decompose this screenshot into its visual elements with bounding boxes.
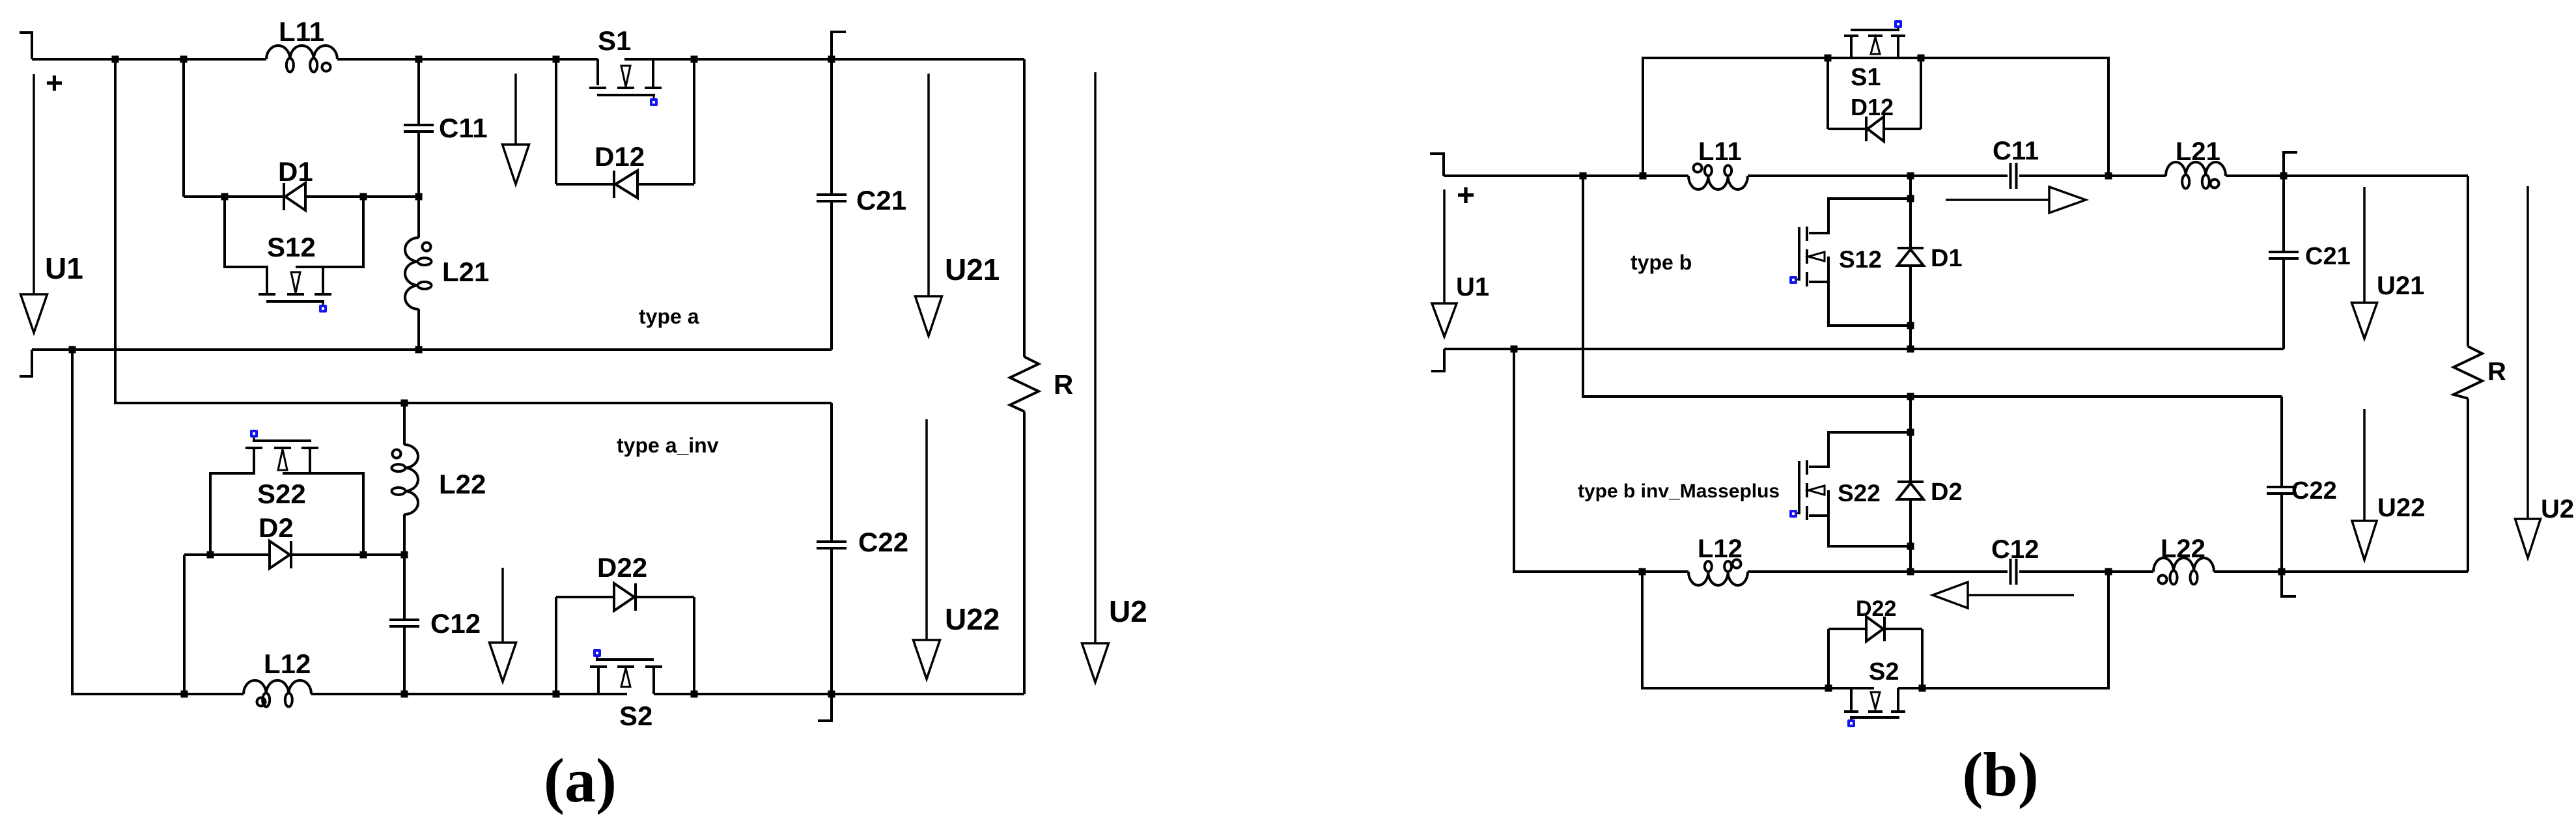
node D2 line / S22 right (a) (360, 551, 367, 559)
svg-text:type a: type a (639, 305, 699, 328)
svg-text:R: R (1054, 369, 1073, 400)
svg-text:L12: L12 (264, 648, 311, 679)
inductor L22 (a) (392, 445, 419, 514)
label C22 (b) (2291, 477, 2337, 505)
arrow current i2 (a) (490, 568, 516, 682)
transistor S1 (a) (589, 59, 662, 106)
svg-text:(a): (a) (544, 745, 617, 815)
wire R top lead (a) (1023, 59, 1026, 357)
wire C22 bottom lead (b) (2282, 494, 2296, 596)
node rail1 / S1 return riser (b) (2105, 173, 2112, 180)
node rail3 / D2 branch (b) (1907, 393, 1914, 400)
wire C21 measuring bracket (b) (2284, 152, 2297, 176)
label C21 (b) (2305, 243, 2351, 270)
node D2 / S22 top (b) (1907, 429, 1914, 436)
svg-text:U21: U21 (2377, 271, 2424, 300)
wire input rail segment 4 (b) (2226, 174, 2468, 177)
label S22 (b) (1838, 480, 1881, 507)
svg-text:L21: L21 (442, 257, 489, 287)
wire D22 right riser (b) (1921, 629, 1924, 688)
node D2 line / L22 bottom (a) (401, 551, 408, 559)
label D1 (b) (1931, 245, 1963, 272)
svg-text:+: + (46, 66, 63, 100)
diode D2 (b) (1897, 482, 1924, 499)
label D12 (a) (595, 141, 645, 172)
arrow U1 source voltage (b) (1432, 189, 1457, 337)
label D2 (b) (1931, 479, 1963, 506)
capacitor C21 (a) (817, 195, 847, 201)
svg-text:L11: L11 (279, 16, 324, 47)
wire S2 drain corner (a) (652, 668, 655, 694)
svg-text:S12: S12 (1839, 246, 1882, 273)
label D2 (a) (259, 512, 294, 543)
inductor L21 (a) (405, 238, 432, 309)
wire C12 bottom lead (a) (403, 626, 406, 694)
wire D22 cathode segment (a) (636, 596, 694, 598)
wire C22 bottom lead (a) (818, 548, 832, 721)
node bottom rail / D2 column (a) (181, 691, 188, 698)
node S2 rail / D22 right (b) (1919, 685, 1926, 692)
wire L21 bottom lead (a) (417, 309, 420, 350)
diode D22 (b) (1866, 617, 1884, 641)
wire D22 cathode segment (b) (1884, 628, 1922, 630)
wire C21 measuring bracket (a) (832, 32, 846, 59)
label + polarity (a) (46, 66, 63, 100)
wire D2 left column down (a) (183, 555, 186, 694)
label D1 (a) (278, 156, 313, 187)
label S2 (b) (1869, 658, 1899, 686)
diode D12 (a) (614, 171, 637, 198)
node bottom rail / C12 (a) (401, 691, 408, 698)
node rail1 / S1 riser (b) (1640, 173, 1647, 180)
node mid rail / D1 (b) (1907, 346, 1914, 353)
wire top rail right of S1 (a) (624, 58, 1024, 61)
wire S22 bottom lead (b) (1809, 516, 1911, 546)
label C12 (b) (1991, 535, 2039, 564)
svg-text:D12: D12 (1851, 94, 1894, 120)
svg-text:R: R (2487, 357, 2506, 386)
resistor R (b) (2454, 346, 2482, 398)
wire L22 top lead (a) (403, 403, 406, 445)
capacitor C22 (b) (2267, 487, 2297, 494)
svg-text:type a_inv: type a_inv (617, 434, 719, 457)
svg-text:C12: C12 (1991, 535, 2039, 564)
wire S22 right lead (a) (283, 473, 363, 555)
inductor L11 (a) (266, 46, 337, 72)
capacitor C22 (a) (817, 542, 847, 548)
svg-text:L22: L22 (2161, 535, 2205, 563)
wire C22 top lead (a) (830, 403, 833, 542)
node rail1 / C21 branch (b) (2280, 173, 2288, 180)
wire left column (a) (72, 350, 244, 694)
label U1 (a) (45, 251, 83, 285)
arrow U22 output voltage (a) (914, 419, 940, 679)
wire L21 top lead (a) (417, 197, 420, 238)
svg-text:C12: C12 (430, 608, 481, 639)
svg-text:C22: C22 (858, 527, 908, 557)
svg-text:D2: D2 (1931, 479, 1963, 506)
arrow U21 output voltage (a) (916, 74, 942, 336)
node mid rail / L21 bottom (a) (415, 346, 423, 354)
node mid rail / left column (a) (69, 346, 76, 354)
transistor S22 (b) (1789, 460, 1828, 546)
node D1 line / C11-L21 (a) (415, 193, 423, 201)
svg-text:S2: S2 (1869, 658, 1899, 686)
wire S1 line (b) (1828, 57, 1921, 59)
node S2 rail / D22 left (b) (1825, 685, 1832, 692)
label U22 (a) (945, 602, 1000, 636)
inductor L12 (a) (244, 680, 311, 707)
svg-text:D2: D2 (259, 512, 294, 543)
wire D1 branch top (b) (1909, 176, 1912, 248)
svg-text:U1: U1 (45, 251, 83, 285)
svg-text:U2: U2 (1109, 594, 1147, 628)
svg-text:type b: type b (1631, 251, 1692, 274)
arrow U2 total output voltage (a) (1082, 72, 1109, 682)
node rail1 / rail3 riser (b) (1580, 173, 1587, 180)
svg-text:S1: S1 (1851, 64, 1881, 91)
wire mid rail to L12 rail riser (b) (1514, 349, 1688, 572)
wire top rail mid segment (a) (337, 58, 598, 61)
wire D22 anode segment (a) (556, 596, 614, 598)
label L12 (a) (264, 648, 311, 679)
svg-text:D1: D1 (278, 156, 313, 187)
node L12 rail / S2 right riser (b) (2105, 568, 2112, 576)
node top rail / D1 loop riser (a) (180, 56, 188, 63)
node rail1 / D1 branch (b) (1907, 173, 1914, 180)
wire D1 line left (a) (184, 195, 285, 198)
wire left column U1-riser to inv rail (a) (115, 59, 832, 403)
svg-text:C22: C22 (2291, 477, 2337, 505)
wire S12 bottom lead (b) (1809, 282, 1911, 326)
label type b inv_Masseplus (1578, 480, 1780, 502)
label C11 (a) (439, 113, 488, 143)
node D1 line / S12 right (a) (360, 193, 367, 201)
label S1 (a) (598, 25, 631, 56)
wire D12 right riser (b) (1920, 58, 1922, 129)
label C12 (a) (430, 608, 481, 639)
transistor S12 (b) (1789, 227, 1828, 326)
transistor S22 (a) (245, 430, 318, 473)
capacitor C11 (a) (404, 125, 434, 132)
wire D1 branch bottom (b) (1909, 266, 1912, 349)
svg-text:(b): (b) (1962, 740, 2038, 809)
capacitor C11 (b) (2011, 163, 2017, 189)
svg-text:L22: L22 (439, 469, 486, 499)
label U22 (b) (2377, 494, 2425, 522)
svg-text:C21: C21 (856, 185, 906, 216)
wire R bottom lead (b) (2467, 398, 2469, 572)
node top rail / C21 branch (a) (828, 56, 835, 63)
wire D12 left riser (b) (1827, 58, 1829, 129)
wire D2 branch bottom (b) (1909, 499, 1912, 572)
wire C11 bottom lead (a) (417, 132, 420, 197)
svg-text:C11: C11 (1993, 137, 2039, 165)
wire input rail segment 3 (b) (2019, 174, 2166, 177)
wire C21 bottom lead (a) (830, 201, 833, 350)
label type b (1631, 251, 1692, 274)
resistor R (a) (1010, 357, 1039, 411)
label R (b) (2487, 357, 2506, 386)
diode D1 (b) (1897, 248, 1924, 266)
label R (a) (1054, 369, 1073, 400)
node D1 / S12 top (b) (1907, 195, 1914, 202)
svg-text:U1: U1 (1456, 273, 1489, 301)
label S12 (a) (267, 232, 316, 262)
wire S1 drain corner (a) (596, 59, 599, 85)
wire source bracket bottom-left (a) (20, 350, 32, 376)
label D22 (a) (597, 552, 647, 583)
svg-text:L21: L21 (2176, 137, 2220, 166)
diode D12 (b) (1866, 117, 1884, 141)
node inv rail / L22 (a) (401, 400, 408, 407)
wire S2 rail mid (b) (1828, 687, 1874, 689)
svg-text:C11: C11 (439, 113, 488, 143)
svg-text:D12: D12 (595, 141, 645, 172)
label C21 (a) (856, 185, 906, 216)
inductor L21 (b) (2166, 162, 2226, 189)
wire C11 top lead (a) (417, 59, 420, 125)
wire S1 right return (b) (1921, 58, 2108, 176)
node top rail / D12 left riser (a) (553, 56, 560, 63)
wire S12 right lead (a) (296, 197, 363, 267)
wire S1 left riser (b) (1643, 58, 1828, 176)
node D1 / S12 bottom (b) (1907, 322, 1914, 329)
wire D12 left riser (a) (555, 59, 557, 184)
wire S12 top lead (b) (1809, 199, 1911, 233)
svg-text:type b inv_Masseplus: type b inv_Masseplus (1578, 480, 1780, 502)
caption (a) (544, 745, 617, 815)
wire C22 top lead (b) (2280, 397, 2283, 487)
wire D12 anode segment (b) (1828, 128, 1867, 130)
wire L12 rail segment 4 (b) (2214, 570, 2468, 573)
wire L12 rail segment 3 (b) (2019, 570, 2153, 573)
wire C12 top lead (a) (403, 555, 406, 620)
arrow U1 source voltage (a) (21, 74, 48, 333)
wire S2 rail left column (b) (1642, 572, 1828, 688)
wire rail1 to rail3 riser (b) (1583, 176, 2282, 397)
wire source bracket bottom-left (b) (1431, 349, 1444, 371)
label S2 (a) (619, 701, 652, 731)
wire D22 right riser (a) (693, 597, 695, 694)
wire S22 left lead (a) (210, 449, 254, 555)
svg-text:S12: S12 (267, 232, 316, 262)
wire D2 branch top (b) (1909, 397, 1912, 482)
label + polarity (b) (1457, 178, 1475, 213)
label S1 (b) (1851, 64, 1881, 91)
wire input rail segment 2 (b) (1748, 174, 2008, 177)
capacitor C12 (b) (2011, 559, 2017, 585)
label U2 (b) (2541, 495, 2574, 523)
label L21 (b) (2176, 137, 2220, 166)
label U1 (b) (1456, 273, 1489, 301)
node S1 left / D12 (b) (1825, 55, 1832, 62)
wire D2 line right (a) (291, 553, 404, 556)
capacitor C21 (b) (2269, 252, 2299, 258)
wire S12 left lead (a) (225, 197, 267, 293)
svg-text:D22: D22 (1856, 596, 1896, 621)
node mid rail / L12 column (b) (1511, 346, 1518, 353)
node bottom rail / D22 right (a) (691, 691, 698, 698)
wire R top lead (b) (2467, 176, 2469, 346)
wire bottom rail mid (a) (311, 693, 627, 695)
inductor L12 (b) (1688, 560, 1748, 586)
wire S2 drain corner (b) (1897, 688, 1899, 710)
wire R bottom lead (a) (1023, 411, 1026, 694)
svg-text:+: + (1457, 178, 1475, 213)
svg-text:U2: U2 (2541, 495, 2574, 523)
inductor L11 (b) (1688, 164, 1748, 190)
wire D12 cathode segment (a) (637, 183, 694, 186)
transistor S12 (a) (259, 267, 331, 313)
svg-text:L12: L12 (1698, 535, 1743, 563)
arrow U2 total output voltage (b) (2515, 186, 2541, 558)
inductor L22 (b) (2153, 558, 2214, 585)
svg-text:S22: S22 (257, 479, 306, 509)
node L12 rail / D2 (b) (1907, 568, 1914, 576)
wire mid rail (a) (32, 348, 832, 351)
node D1 line / S12 left (a) (221, 193, 229, 201)
wire D22 left riser (b) (1827, 629, 1830, 688)
label U21 (a) (945, 253, 1000, 286)
arrow current i1 (b) (1946, 187, 2086, 213)
svg-text:L11: L11 (1698, 137, 1742, 166)
svg-text:D22: D22 (597, 552, 647, 583)
wire D2 line left corner (a) (184, 553, 270, 556)
svg-text:D1: D1 (1931, 245, 1963, 272)
label D12 (b) (1851, 94, 1894, 120)
label S12 (b) (1839, 246, 1882, 273)
label L11 (b) (1698, 137, 1742, 166)
wire top rail left segment (a) (32, 58, 266, 61)
label C22 (a) (858, 527, 908, 557)
arrow current i1 (a) (503, 74, 529, 184)
wire C21 top lead (b) (2282, 176, 2285, 252)
svg-text:S1: S1 (598, 25, 631, 56)
wire input rail segment 1 (b) (1444, 174, 1688, 177)
wire C21 top lead (a) (830, 59, 833, 195)
node D2 / S22 bottom (b) (1907, 543, 1914, 550)
wire L12 rail segment 2 (b) (1748, 570, 2008, 573)
label type a (639, 305, 699, 328)
wire D12 anode segment (a) (556, 183, 615, 186)
label L22 (a) (439, 469, 486, 499)
label L21 (a) (442, 257, 489, 287)
arrow current i2 (b) (1933, 582, 2074, 608)
label type a_inv (617, 434, 719, 457)
svg-text:S2: S2 (619, 701, 652, 731)
node bottom rail / D22 left (a) (553, 691, 560, 698)
svg-text:S22: S22 (1838, 480, 1881, 507)
arrow U21 output voltage (b) (2352, 187, 2377, 339)
wire source bracket top-left (a) (20, 33, 32, 59)
caption (b) (1962, 740, 2038, 809)
node D2 line / S22 left (a) (207, 551, 214, 559)
node L12 rail / S2 column (b) (1639, 568, 1646, 576)
transistor S1 (b) (1844, 20, 1905, 58)
wire D12 cathode segment (b) (1885, 128, 1921, 130)
label U21 (b) (2377, 271, 2424, 300)
wire L22 bottom lead (a) (403, 514, 406, 555)
transistor S2 (b) (1844, 688, 1905, 727)
svg-text:U22: U22 (945, 602, 1000, 636)
wire D1 loop left riser (a) (182, 59, 185, 197)
node S1 right / D12 (b) (1918, 55, 1925, 62)
label U2 (a) (1109, 594, 1147, 628)
svg-text:U22: U22 (2377, 494, 2425, 522)
diode D1 (a) (284, 183, 305, 210)
wire mid rail (b) (1444, 348, 2284, 350)
node L22 rail / C22 (b) (2278, 568, 2286, 576)
svg-text:C21: C21 (2305, 243, 2351, 270)
capacitor C12 (a) (389, 620, 419, 626)
arrow U22 output voltage (b) (2352, 409, 2377, 560)
wire source bracket top-left (b) (1430, 154, 1444, 176)
node top rail / U1-left riser (a) (112, 56, 119, 63)
wire D12 right riser (a) (693, 59, 695, 184)
node bottom rail / C22 (a) (828, 691, 835, 698)
wire D22 anode segment (b) (1828, 628, 1866, 630)
diode D2 (a) (270, 541, 291, 568)
svg-text:U21: U21 (945, 253, 1000, 286)
node top rail / C11 branch (a) (415, 56, 423, 63)
label L11 (a) (279, 16, 324, 47)
wire C21 bottom lead (b) (2282, 258, 2285, 349)
label L22 (b) (2161, 535, 2205, 563)
label L12 (b) (1698, 535, 1743, 563)
label C11 (b) (1993, 137, 2039, 165)
label S22 (a) (257, 479, 306, 509)
wire D22 left riser (a) (555, 597, 557, 694)
node top rail / D12 right riser (a) (691, 56, 698, 63)
wire bottom rail right (a) (654, 693, 1024, 695)
label D22 (b) (1856, 596, 1896, 621)
wire S22 top lead (b) (1809, 432, 1911, 467)
diode D22 (a) (614, 583, 636, 611)
wire S2 rail right (b) (1898, 572, 2108, 688)
transistor S2 (a) (590, 649, 662, 694)
wire D1 line right (a) (305, 195, 419, 198)
